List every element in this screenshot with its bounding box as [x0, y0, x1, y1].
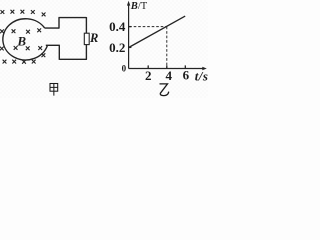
svg-text:2: 2: [145, 68, 152, 83]
tick 2: [147, 65, 149, 68]
tick 6: [184, 65, 186, 68]
svg-text:B/T: B/T: [130, 1, 148, 12]
coil loop (open circle): [3, 19, 48, 60]
svg-text:0.4: 0.4: [109, 19, 126, 34]
tick 0.2: [129, 46, 132, 48]
y-axis arrowhead: [127, 1, 130, 6]
wire down to resistor: [85, 17, 87, 33]
field x marks row4: [3, 53, 46, 63]
field x marks row3: [0, 46, 42, 50]
wire lower riser: [58, 45, 60, 60]
dashed vertical t=4: [166, 27, 168, 69]
field x marks row2: [0, 28, 41, 33]
svg-text:0: 0: [122, 64, 127, 74]
tick 0.4: [129, 26, 132, 28]
caption jia: [50, 84, 58, 96]
svg-text:0.2: 0.2: [109, 40, 125, 55]
background speckle: [0, 0, 208, 98]
caption yi: [160, 84, 169, 96]
B-t line: [129, 16, 186, 47]
svg-text:4: 4: [165, 68, 172, 83]
x-axis arrowhead: [202, 67, 207, 70]
wire below resistor: [85, 45, 87, 60]
wire upper lead: [45, 27, 59, 29]
svg-text:6: 6: [183, 68, 190, 83]
svg-text:t/s: t/s: [195, 69, 208, 84]
svg-text:R: R: [89, 31, 98, 45]
tick 4: [166, 65, 168, 68]
x-axis: [129, 68, 204, 70]
dashed level 0.4: [129, 26, 167, 28]
wire lower lead: [46, 44, 60, 46]
wire bottom run: [59, 58, 87, 60]
resistor R box: [84, 33, 89, 44]
y-axis: [128, 3, 130, 69]
wire upper riser: [58, 18, 60, 29]
field x marks row1: [1, 10, 46, 17]
wire top run: [58, 17, 86, 19]
svg-text:B: B: [16, 33, 26, 48]
